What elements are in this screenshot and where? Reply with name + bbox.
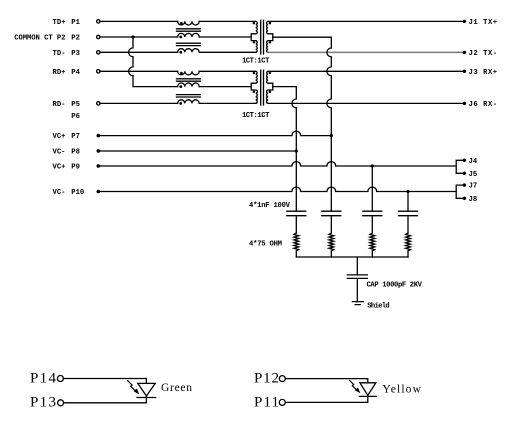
svg-text:Shield: Shield	[367, 302, 390, 310]
svg-text:J5: J5	[469, 171, 478, 179]
LED D2 (Yellow) triangle	[360, 383, 376, 396]
transformer T2 secondary winding	[267, 71, 273, 103]
node P9/branch3 junction	[371, 164, 374, 167]
transformer T1 core	[261, 20, 264, 54]
capacitor C2 (1nF 100V)	[322, 211, 341, 233]
terminal P12	[279, 376, 285, 382]
svg-text:4*1nF 100V: 4*1nF 100V	[249, 202, 291, 210]
resistor R4 (75 OHM)	[406, 233, 411, 251]
resistor R3 (75 OHM)	[370, 233, 375, 251]
terminal P5 (RD-)	[97, 102, 100, 105]
terminal P2 (COMMON CT P2)	[97, 35, 100, 38]
wire P3 TD- to choke L1	[100, 51, 178, 53]
wire T2 secondary bottom to J6	[268, 102, 463, 104]
wire branch 3 vertical	[371, 166, 373, 211]
choke L1 winding b (CT)	[178, 33, 200, 37]
svg-text:J7: J7	[469, 183, 478, 191]
transformer T2 core	[261, 70, 264, 105]
svg-text:P10: P10	[71, 189, 84, 197]
svg-text:P9: P9	[71, 164, 80, 172]
wire T1 secondary top to J1	[268, 20, 463, 22]
terminal J1	[463, 20, 466, 23]
node P8/branch1 junction	[295, 149, 298, 152]
wire P2 junction down to choke L2 middle (hops over P3,P4)	[129, 37, 178, 87]
svg-text:P11: P11	[254, 394, 279, 410]
terminal P14	[57, 376, 63, 382]
wire R4 to bus	[407, 251, 409, 257]
wire termination bus	[296, 256, 408, 258]
transformer T1 primary winding	[251, 21, 257, 52]
wire P2 COMMON CT to choke L1 middle	[100, 36, 178, 38]
svg-text:P5: P5	[71, 101, 80, 109]
wire branch 2 vertical (hops TX-,RX+,RX-)	[327, 37, 331, 211]
choke L1 core 2	[177, 43, 201, 45]
svg-text:P6: P6	[71, 113, 80, 121]
terminal J2	[463, 51, 466, 54]
node on P2 line (junction to RX center tap)	[131, 35, 134, 38]
capacitor C3 (1nF 100V)	[363, 211, 382, 233]
terminal P8 (VC-)	[97, 149, 101, 153]
wire P12 to LED D2	[285, 379, 367, 383]
resistor R2 (75 OHM)	[329, 233, 334, 251]
svg-text:Green: Green	[161, 382, 192, 394]
wire choke L2 c to transformer T2	[199, 102, 256, 104]
terminal P4 (RD+)	[97, 70, 100, 73]
svg-text:P13: P13	[30, 395, 56, 411]
transformer T1 secondary winding	[267, 21, 273, 52]
choke L2 core	[177, 79, 201, 81]
svg-text:P12: P12	[254, 371, 279, 387]
svg-text:P1: P1	[71, 19, 80, 27]
transformer T1 phase dots	[253, 22, 256, 25]
svg-text:P3: P3	[71, 50, 80, 58]
terminal J6	[463, 102, 466, 105]
wire T2 secondary top to J3	[268, 70, 463, 72]
node P10/branch4 junction	[406, 190, 409, 193]
svg-text:P8: P8	[71, 149, 80, 157]
terminal P11	[279, 399, 285, 405]
choke L2 winding a (RD+)	[178, 71, 200, 75]
choke L2 winding c (RD-)	[178, 100, 200, 104]
transformer T2 primary winding	[251, 71, 257, 103]
transformer T2 phase dots	[253, 72, 256, 75]
wire P4 RD+ to choke L2	[100, 70, 178, 72]
svg-text:VC+: VC+	[53, 133, 66, 141]
choke L1 winding c (TD-)	[178, 49, 200, 53]
terminal J5	[463, 172, 466, 175]
svg-text:J8: J8	[469, 196, 478, 204]
wire T1 secondary CT to branch 2	[273, 36, 332, 38]
terminal J4	[463, 159, 466, 162]
terminal J3	[463, 70, 466, 73]
wire P8 VC- to branch 1	[100, 150, 296, 152]
svg-text:J3 RX+: J3 RX+	[469, 69, 498, 77]
svg-text:P7: P7	[71, 133, 80, 141]
svg-text:VC-: VC-	[53, 149, 66, 157]
svg-text:J1 TX+: J1 TX+	[469, 19, 498, 27]
svg-text:TD-: TD-	[53, 50, 66, 58]
choke L1 core	[177, 29, 201, 31]
terminal P10 (VC-)	[97, 190, 101, 194]
svg-text:1CT:1CT: 1CT:1CT	[242, 112, 270, 120]
capacitor C4 (1nF 100V)	[399, 211, 418, 233]
LED D2 cathode bar	[359, 395, 376, 397]
terminal P9 (VC+)	[97, 164, 101, 168]
wire LED D2 to P11	[285, 395, 367, 402]
connector bracket J4/J5	[456, 160, 463, 173]
svg-text:1CT:1CT: 1CT:1CT	[242, 57, 270, 65]
terminal P1 (TD+)	[97, 20, 100, 23]
wire branch 1 vertical (hops RX-)	[292, 87, 296, 212]
svg-text:CAP 1000pF 2KV: CAP 1000pF 2KV	[367, 281, 423, 289]
resistor R1 (75 OHM)	[294, 233, 299, 251]
wire P5 RD- to choke L2	[100, 102, 178, 104]
terminal P13	[58, 400, 64, 406]
capacitor C1 (1nF 100V)	[287, 211, 306, 233]
svg-text:TD+: TD+	[53, 19, 66, 27]
svg-text:J6 RX-: J6 RX-	[469, 101, 498, 109]
terminal J8	[463, 197, 466, 200]
svg-text:Yellow: Yellow	[382, 384, 421, 396]
wire P14 to LED D1	[64, 379, 147, 384]
wire branch 4 vertical	[407, 192, 409, 212]
wire T2 secondary CT to branch 1	[273, 86, 297, 88]
node P7/branch2 junction	[330, 134, 333, 137]
LED D1 (Green) triangle	[138, 383, 155, 396]
wire choke L1 middle to transformer T1 CT	[199, 36, 251, 38]
choke L2 winding b (CT)	[178, 83, 200, 87]
capacitor C5 (CAP 1000pF 2KV)	[347, 275, 367, 302]
svg-text:4*75 OHM: 4*75 OHM	[249, 241, 282, 249]
wire T1 secondary bottom to J2 (gray)	[268, 51, 463, 53]
wire R1 to bus	[295, 251, 297, 257]
wire choke L1 a to transformer T1	[199, 20, 256, 22]
svg-text:P4: P4	[71, 69, 80, 77]
svg-text:VC-: VC-	[53, 189, 66, 197]
svg-text:VC+: VC+	[53, 164, 66, 172]
terminal J7	[463, 183, 466, 186]
ground (Shield)	[352, 302, 363, 305]
wire choke L2 middle to transformer T2 CT	[199, 86, 251, 88]
terminal P3 (TD-)	[97, 51, 100, 54]
wire bus to shield cap	[356, 257, 358, 275]
wire P10 VC- to J7/J8 (hops branches 1,2,3)	[100, 187, 456, 191]
wire R3 to bus	[371, 251, 373, 257]
connector bracket J7/J8	[456, 185, 463, 198]
choke L1 winding a (TD+)	[178, 21, 200, 25]
svg-text:COMMON CT P2: COMMON CT P2	[14, 35, 65, 43]
LED D1 light arrow	[128, 381, 135, 391]
terminal P7 (VC+)	[97, 134, 101, 138]
wire R2 to bus	[330, 251, 332, 257]
wire P7 VC+ to branch 2 (hops branch 1)	[100, 131, 331, 135]
svg-text:P2: P2	[71, 35, 80, 43]
wire LED D1 to P13	[64, 396, 147, 403]
wire P9 VC+ to J4/J5 (hops branches 1,2)	[100, 162, 456, 166]
svg-text:RD-: RD-	[53, 101, 66, 109]
svg-text:RD+: RD+	[53, 69, 66, 77]
LED D2 light arrow	[350, 381, 356, 390]
svg-text:P14: P14	[30, 370, 57, 386]
wire P1 TD+ to choke L1	[100, 20, 178, 22]
svg-text:J2 TX-: J2 TX-	[469, 50, 498, 58]
wire choke L2 a to transformer T2	[199, 70, 256, 72]
svg-text:J4: J4	[469, 158, 478, 166]
choke L2 core 2	[177, 95, 201, 97]
wire choke L1 c to transformer T1	[199, 51, 256, 53]
LED D1 cathode bar	[137, 397, 156, 399]
